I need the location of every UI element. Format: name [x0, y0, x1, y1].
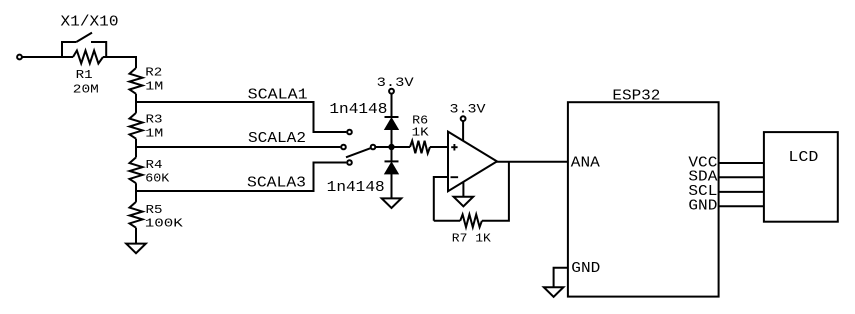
svg-text:100K: 100K	[145, 217, 184, 231]
diode D2 1n4148	[327, 161, 399, 196]
svg-text:1n4148: 1n4148	[327, 179, 385, 196]
wire	[434, 177, 448, 221]
pin VCC	[688, 155, 764, 172]
wire	[22, 56, 73, 58]
switch contact 3	[347, 160, 352, 165]
pin GND2	[688, 197, 764, 214]
wire	[135, 139, 137, 158]
ground	[126, 244, 146, 254]
svg-text:R1: R1	[76, 68, 93, 82]
svg-text:60K: 60K	[145, 172, 170, 186]
svg-text:SCALA2: SCALA2	[248, 130, 306, 147]
pin ANA	[571, 155, 600, 172]
svg-text:ANA: ANA	[571, 155, 600, 172]
ground	[382, 198, 402, 208]
wire	[482, 162, 509, 221]
svg-text:X1/X10: X1/X10	[61, 14, 119, 31]
wire	[391, 94, 393, 117]
wire	[434, 220, 460, 222]
svg-text:R2: R2	[145, 66, 162, 80]
switch contact 2	[341, 145, 346, 150]
wire	[391, 130, 393, 162]
input terminal J1	[17, 55, 22, 60]
wire	[135, 94, 137, 113]
svg-text:1n4148: 1n4148	[329, 101, 387, 118]
wire	[103, 56, 136, 58]
wire	[392, 146, 411, 148]
svg-text:1M: 1M	[145, 126, 163, 140]
svg-text:1M: 1M	[145, 79, 163, 93]
pin SCL	[688, 183, 764, 200]
pin GND	[554, 260, 601, 287]
resistor R1	[73, 51, 103, 97]
node SCALA1	[136, 86, 346, 132]
svg-text:3.3V: 3.3V	[377, 75, 414, 90]
svg-text:LCD: LCD	[788, 149, 818, 166]
power 3.3V	[377, 75, 414, 94]
svg-text:R4: R4	[146, 158, 163, 172]
op-amp U1	[448, 132, 497, 192]
resistor R5	[130, 202, 184, 231]
switch contact 1	[347, 130, 352, 135]
switch common contact	[371, 145, 376, 150]
ground	[544, 287, 564, 297]
svg-text:3.3V: 3.3V	[450, 102, 486, 117]
power 3.3V	[450, 102, 486, 141]
resistor R6	[410, 113, 430, 153]
node SCALA2	[136, 130, 340, 147]
diode D1 1n4148	[329, 101, 398, 130]
svg-text:R5: R5	[146, 203, 163, 217]
pin SDA	[688, 168, 764, 185]
switch blade	[346, 148, 370, 157]
LCD module	[764, 132, 838, 222]
resistor R2	[130, 66, 164, 94]
ground	[454, 182, 474, 206]
resistor R4	[130, 157, 171, 185]
svg-text:ESP32: ESP32	[612, 87, 660, 104]
svg-text:R3: R3	[146, 112, 163, 126]
node SCALA3	[136, 163, 346, 192]
wire	[430, 146, 448, 148]
wire	[497, 161, 568, 163]
svg-text:SCALA1: SCALA1	[248, 86, 308, 103]
wire	[375, 146, 391, 148]
resistor R7	[452, 215, 492, 246]
wire	[135, 56, 137, 68]
svg-text:R7 1K: R7 1K	[452, 232, 492, 246]
svg-text:SCALA3: SCALA3	[247, 175, 306, 192]
wire	[135, 228, 137, 244]
switch X1/X10	[61, 14, 119, 58]
wire	[135, 183, 137, 202]
resistor R3	[130, 112, 164, 140]
svg-text:GND: GND	[571, 260, 600, 277]
svg-text:1K: 1K	[412, 125, 430, 139]
IC ESP32	[568, 87, 719, 296]
junction	[388, 144, 394, 150]
svg-text:GND: GND	[688, 197, 717, 214]
wire	[391, 174, 393, 199]
svg-text:20M: 20M	[73, 82, 99, 96]
